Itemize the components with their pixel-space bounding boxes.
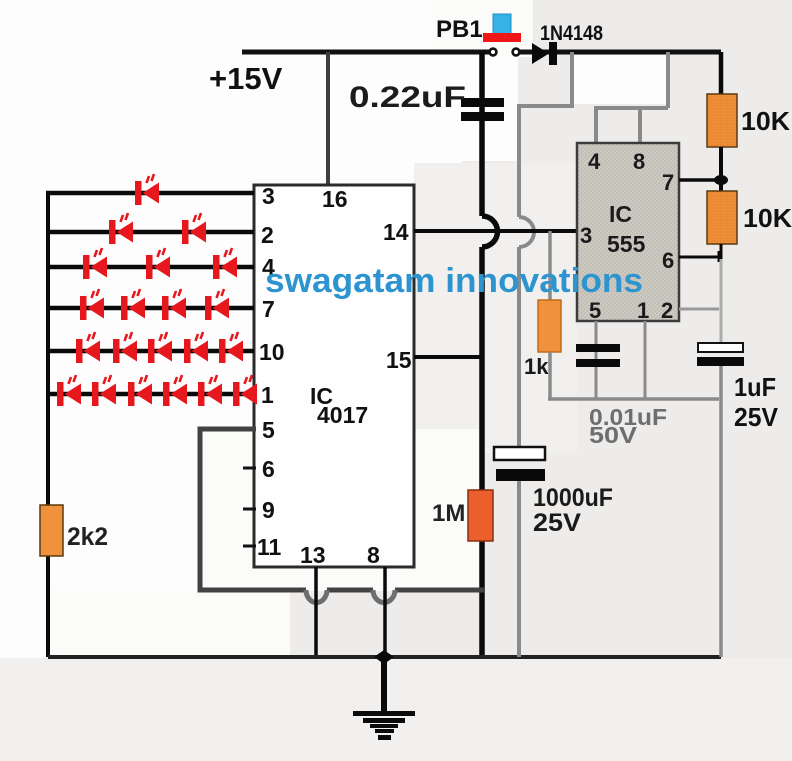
wire hop: black vertical over pin14 wire [482, 216, 497, 247]
capacitor C3 1000uF + plate [494, 447, 545, 460]
svg-text:1M: 1M [432, 500, 465, 527]
svg-text:6: 6 [262, 456, 275, 482]
wire: right column from supply rail [719, 52, 724, 96]
wire: 555 pin 7 to resistor junction [679, 178, 721, 182]
svg-text:555: 555 [607, 231, 646, 257]
svg-text:1k: 1k [524, 354, 549, 379]
LED D6 [213, 248, 237, 279]
resistor R5 2k2 [40, 505, 63, 556]
svg-text:PB1: PB1 [436, 16, 483, 43]
svg-text:4017: 4017 [317, 402, 368, 428]
svg-text:9: 9 [262, 497, 275, 523]
IC U2 4017 body [254, 185, 414, 567]
LED D3 [182, 213, 206, 244]
node: ground junction [374, 650, 394, 664]
LED D1 [135, 174, 159, 205]
svg-text:8: 8 [367, 542, 380, 568]
LED D18 [128, 375, 152, 406]
svg-text:swagatam innovations: swagatam innovations [265, 262, 643, 300]
resistor R2 10K [707, 191, 737, 244]
LED D5 [146, 248, 170, 279]
svg-text:13: 13 [300, 542, 326, 568]
pushbutton PB1 [483, 14, 521, 55]
svg-text:14: 14 [383, 219, 409, 245]
LED D4 [83, 248, 107, 279]
svg-text:7: 7 [662, 170, 674, 195]
svg-text:3: 3 [262, 183, 275, 209]
LED D11 [76, 332, 100, 363]
svg-text:2k2: 2k2 [67, 523, 108, 551]
svg-text:+15V: +15V [209, 61, 283, 96]
svg-text:2: 2 [661, 298, 673, 323]
IC 4017 pin stubs and labels [243, 468, 256, 546]
svg-text:1: 1 [261, 382, 274, 408]
svg-text:25V: 25V [533, 509, 581, 537]
LED D19 [163, 375, 187, 406]
wire: 555 pin 2 to 1uF line [679, 308, 719, 311]
capacitor 0.22uF [461, 98, 504, 121]
wire: LED row pin 1 [46, 392, 254, 397]
capacitor C2 0.01uF [576, 344, 620, 367]
wire: between 10K resistors [719, 147, 723, 192]
svg-text:1N4148: 1N4148 [540, 22, 603, 45]
wire: 1000uF to ground rail [517, 481, 521, 657]
wire: light gray down to 1uF [720, 259, 723, 344]
LED D14 [184, 332, 208, 363]
svg-text:10K: 10K [743, 203, 792, 233]
wire: 4017 pin15 to trigger line [414, 355, 482, 359]
wire: 1uF to ground rail [719, 366, 723, 657]
svg-text:3: 3 [580, 223, 592, 248]
svg-text:15: 15 [386, 347, 412, 373]
wire: +15V top supply rail [242, 50, 721, 55]
wire: supply drop to IC4017 pin 16 [326, 52, 330, 185]
wire hop: loop over pin13 wire [306, 590, 327, 603]
wire: gray loop from 4017 pin5 [200, 429, 484, 590]
LED D20 [198, 375, 222, 406]
svg-text:10: 10 [259, 339, 285, 365]
LED D13 [148, 332, 172, 363]
wire: LED row pin 2 [46, 230, 254, 235]
svg-text:4: 4 [588, 149, 601, 174]
wire: 1k bottom return [548, 352, 719, 399]
wire: 4017 pin8 to ground rail [383, 567, 387, 657]
resistor R4 1M [468, 490, 493, 541]
LED D17 [92, 375, 116, 406]
capacitor C4 1uF + plate [698, 343, 743, 352]
svg-text:16: 16 [322, 186, 348, 212]
resistor R1 10K [707, 94, 737, 147]
svg-text:5: 5 [589, 298, 601, 323]
svg-text:6: 6 [662, 248, 674, 273]
resistor R3 1k lead [548, 231, 552, 300]
LED D15 [219, 332, 243, 363]
LED D16 [57, 375, 81, 406]
svg-text:1uF: 1uF [734, 372, 776, 402]
LED D21 [233, 375, 257, 406]
svg-text:10K: 10K [741, 106, 790, 136]
wire: left LED bus [46, 193, 50, 657]
wire hop: loop over pin8 wire [373, 590, 395, 603]
svg-text:IC: IC [609, 201, 632, 227]
svg-text:11: 11 [257, 534, 282, 560]
resistor R3 1k [538, 300, 561, 352]
wire hop: gray vertical over pin14 wire [519, 217, 534, 247]
svg-text:25V: 25V [734, 402, 779, 432]
svg-text:8: 8 [633, 149, 645, 174]
wire: 555 pin 5 down [595, 321, 598, 399]
wire: LED row pin 3 [46, 191, 254, 196]
wire: 4017 pin13 to ground rail [314, 567, 318, 657]
LED D2 [109, 213, 133, 244]
LED D8 [121, 289, 145, 320]
LED D7 [80, 289, 104, 320]
node: pin7 junction dot [714, 175, 728, 185]
diode 1N4148 [532, 42, 557, 65]
svg-text:0.22uF: 0.22uF [349, 81, 466, 114]
wire: LED row pin 7 [46, 306, 254, 311]
IC U1 555 body [577, 143, 679, 321]
wire: vertical through 0.22uF / 1M (trigger chain) [479, 52, 485, 657]
wire: 555 pin 6 stub [679, 251, 719, 262]
wire: LED row pin 4 [46, 265, 254, 270]
svg-text:2: 2 [261, 222, 274, 248]
wire: below R2 to pin6 level [720, 244, 723, 259]
LED D12 [113, 332, 137, 363]
wire: LED row pin 10 [46, 349, 254, 354]
wire: 4017 pin14 to 555 pin3 [414, 229, 577, 233]
wire: gray line to 1000uF (from supply rail elbow) [519, 52, 572, 448]
svg-text:50V: 50V [589, 422, 638, 448]
LED D10 [205, 289, 229, 320]
wire: 555 pins 4,8 to supply rail [594, 52, 668, 143]
LED D9 [162, 289, 186, 320]
wire: bottom ground rail [48, 655, 721, 659]
capacitor C3 1000uF - plate [496, 469, 545, 481]
svg-text:5: 5 [262, 417, 275, 443]
capacitor C4 1uF - plate [697, 357, 744, 366]
svg-text:1000uF: 1000uF [533, 484, 613, 512]
wire: 555 pin 1 down [644, 321, 647, 399]
ground [353, 657, 415, 740]
svg-text:1: 1 [637, 298, 649, 323]
